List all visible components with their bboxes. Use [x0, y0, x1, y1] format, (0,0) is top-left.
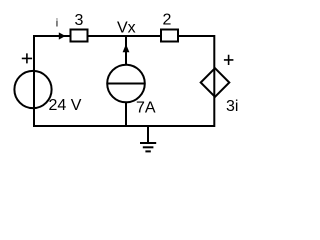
- resistor R1 box (3 ohm): [71, 30, 88, 42]
- svg-text:i: i: [56, 18, 58, 30]
- wire outer loop: [34, 36, 214, 126]
- svg-text:3: 3: [75, 12, 84, 29]
- ground bar 2: [143, 146, 154, 148]
- dependent source diamond (3i): [201, 68, 230, 97]
- svg-text:Vx: Vx: [117, 20, 136, 37]
- current arrow i on top wire: [59, 32, 66, 39]
- current source bottom lead wire: [125, 103, 127, 126]
- svg-text:7A: 7A: [136, 100, 156, 117]
- current source I1 diameter line: [108, 83, 145, 85]
- current source top lead wire: [125, 36, 127, 64]
- current source arrowhead (up): [123, 44, 130, 52]
- ground bar 3: [145, 150, 150, 152]
- plus sign of dependent source: [224, 55, 234, 65]
- svg-text:2: 2: [163, 12, 172, 29]
- voltage source V1 circle (24 V): [14, 71, 51, 108]
- svg-text:3i: 3i: [226, 98, 238, 115]
- plus sign of V1: [22, 53, 32, 63]
- resistor R2 box (2 ohm): [161, 30, 178, 42]
- ground bar 1: [140, 142, 156, 144]
- current source I1 circle (7A): [107, 65, 145, 103]
- svg-text:24 V: 24 V: [49, 97, 82, 114]
- ground stem: [147, 126, 149, 143]
